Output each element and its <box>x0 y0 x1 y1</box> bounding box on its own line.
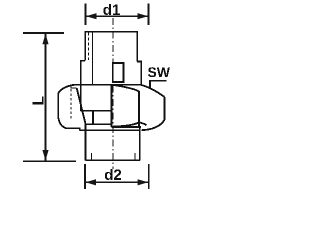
collar box right of centerline <box>113 63 124 82</box>
label SW <box>148 67 170 77</box>
SW leader line <box>150 81 167 88</box>
top tube outline <box>85 32 137 62</box>
label d2 <box>105 169 121 180</box>
hex right edge <box>163 97 165 120</box>
dimension d1 arrow left <box>86 13 97 19</box>
label L <box>33 96 44 104</box>
dimension L arrow top <box>42 34 48 45</box>
top tube thread hidden line (dashed) <box>87 33 89 61</box>
label d1 <box>103 4 119 15</box>
dimension d2 extension line right <box>148 164 150 189</box>
bottom tube thread line right <box>134 153 136 160</box>
hex bottom chamfer arc central face <box>113 122 139 126</box>
section inner shoulder line <box>81 110 112 112</box>
bottom tube thread line left <box>90 153 92 160</box>
bottom tube left edge <box>84 124 86 161</box>
flange seat line <box>71 85 77 88</box>
dimension L arrow bottom <box>42 150 48 161</box>
dimension d2 arrow right <box>138 179 149 185</box>
dimension L extension line bottom <box>23 160 76 162</box>
section step vertical <box>92 111 94 124</box>
hex bottom right rounded skirt <box>142 120 165 130</box>
section bottom edge left of centerline <box>85 123 111 125</box>
hex top chamfer arc central face <box>113 85 139 92</box>
dimension d1 line <box>86 15 148 17</box>
nipple nose edge <box>110 85 112 127</box>
hex top right corner arc <box>141 85 165 97</box>
dimension L extension line top <box>23 32 64 34</box>
dimension d1 extension line right <box>148 4 150 26</box>
bore line <box>91 33 93 85</box>
centerline <box>112 18 114 169</box>
hex bottom small arc right of face edge <box>139 122 147 125</box>
dimension L line <box>45 34 47 161</box>
flange thread hidden line (dashed) <box>70 89 72 119</box>
nut top face line <box>74 84 141 86</box>
bottom tube right edge <box>139 127 141 160</box>
dimension d1 extension line left <box>85 4 87 26</box>
left step of body <box>81 61 85 111</box>
dimension d2 arrow left <box>86 179 97 185</box>
dimension d2 extension line left <box>84 164 86 189</box>
flange internal slant <box>77 88 86 124</box>
bottom tube bottom edge <box>85 159 139 161</box>
dimension d2 line <box>86 181 149 183</box>
flange outline <box>58 85 80 131</box>
nut bottom edge right of centerline <box>111 126 141 128</box>
tube shoulder line <box>80 129 140 131</box>
dimension d1 arrow right <box>138 13 149 19</box>
right step of body <box>137 62 141 85</box>
hex face edge line <box>138 91 140 127</box>
